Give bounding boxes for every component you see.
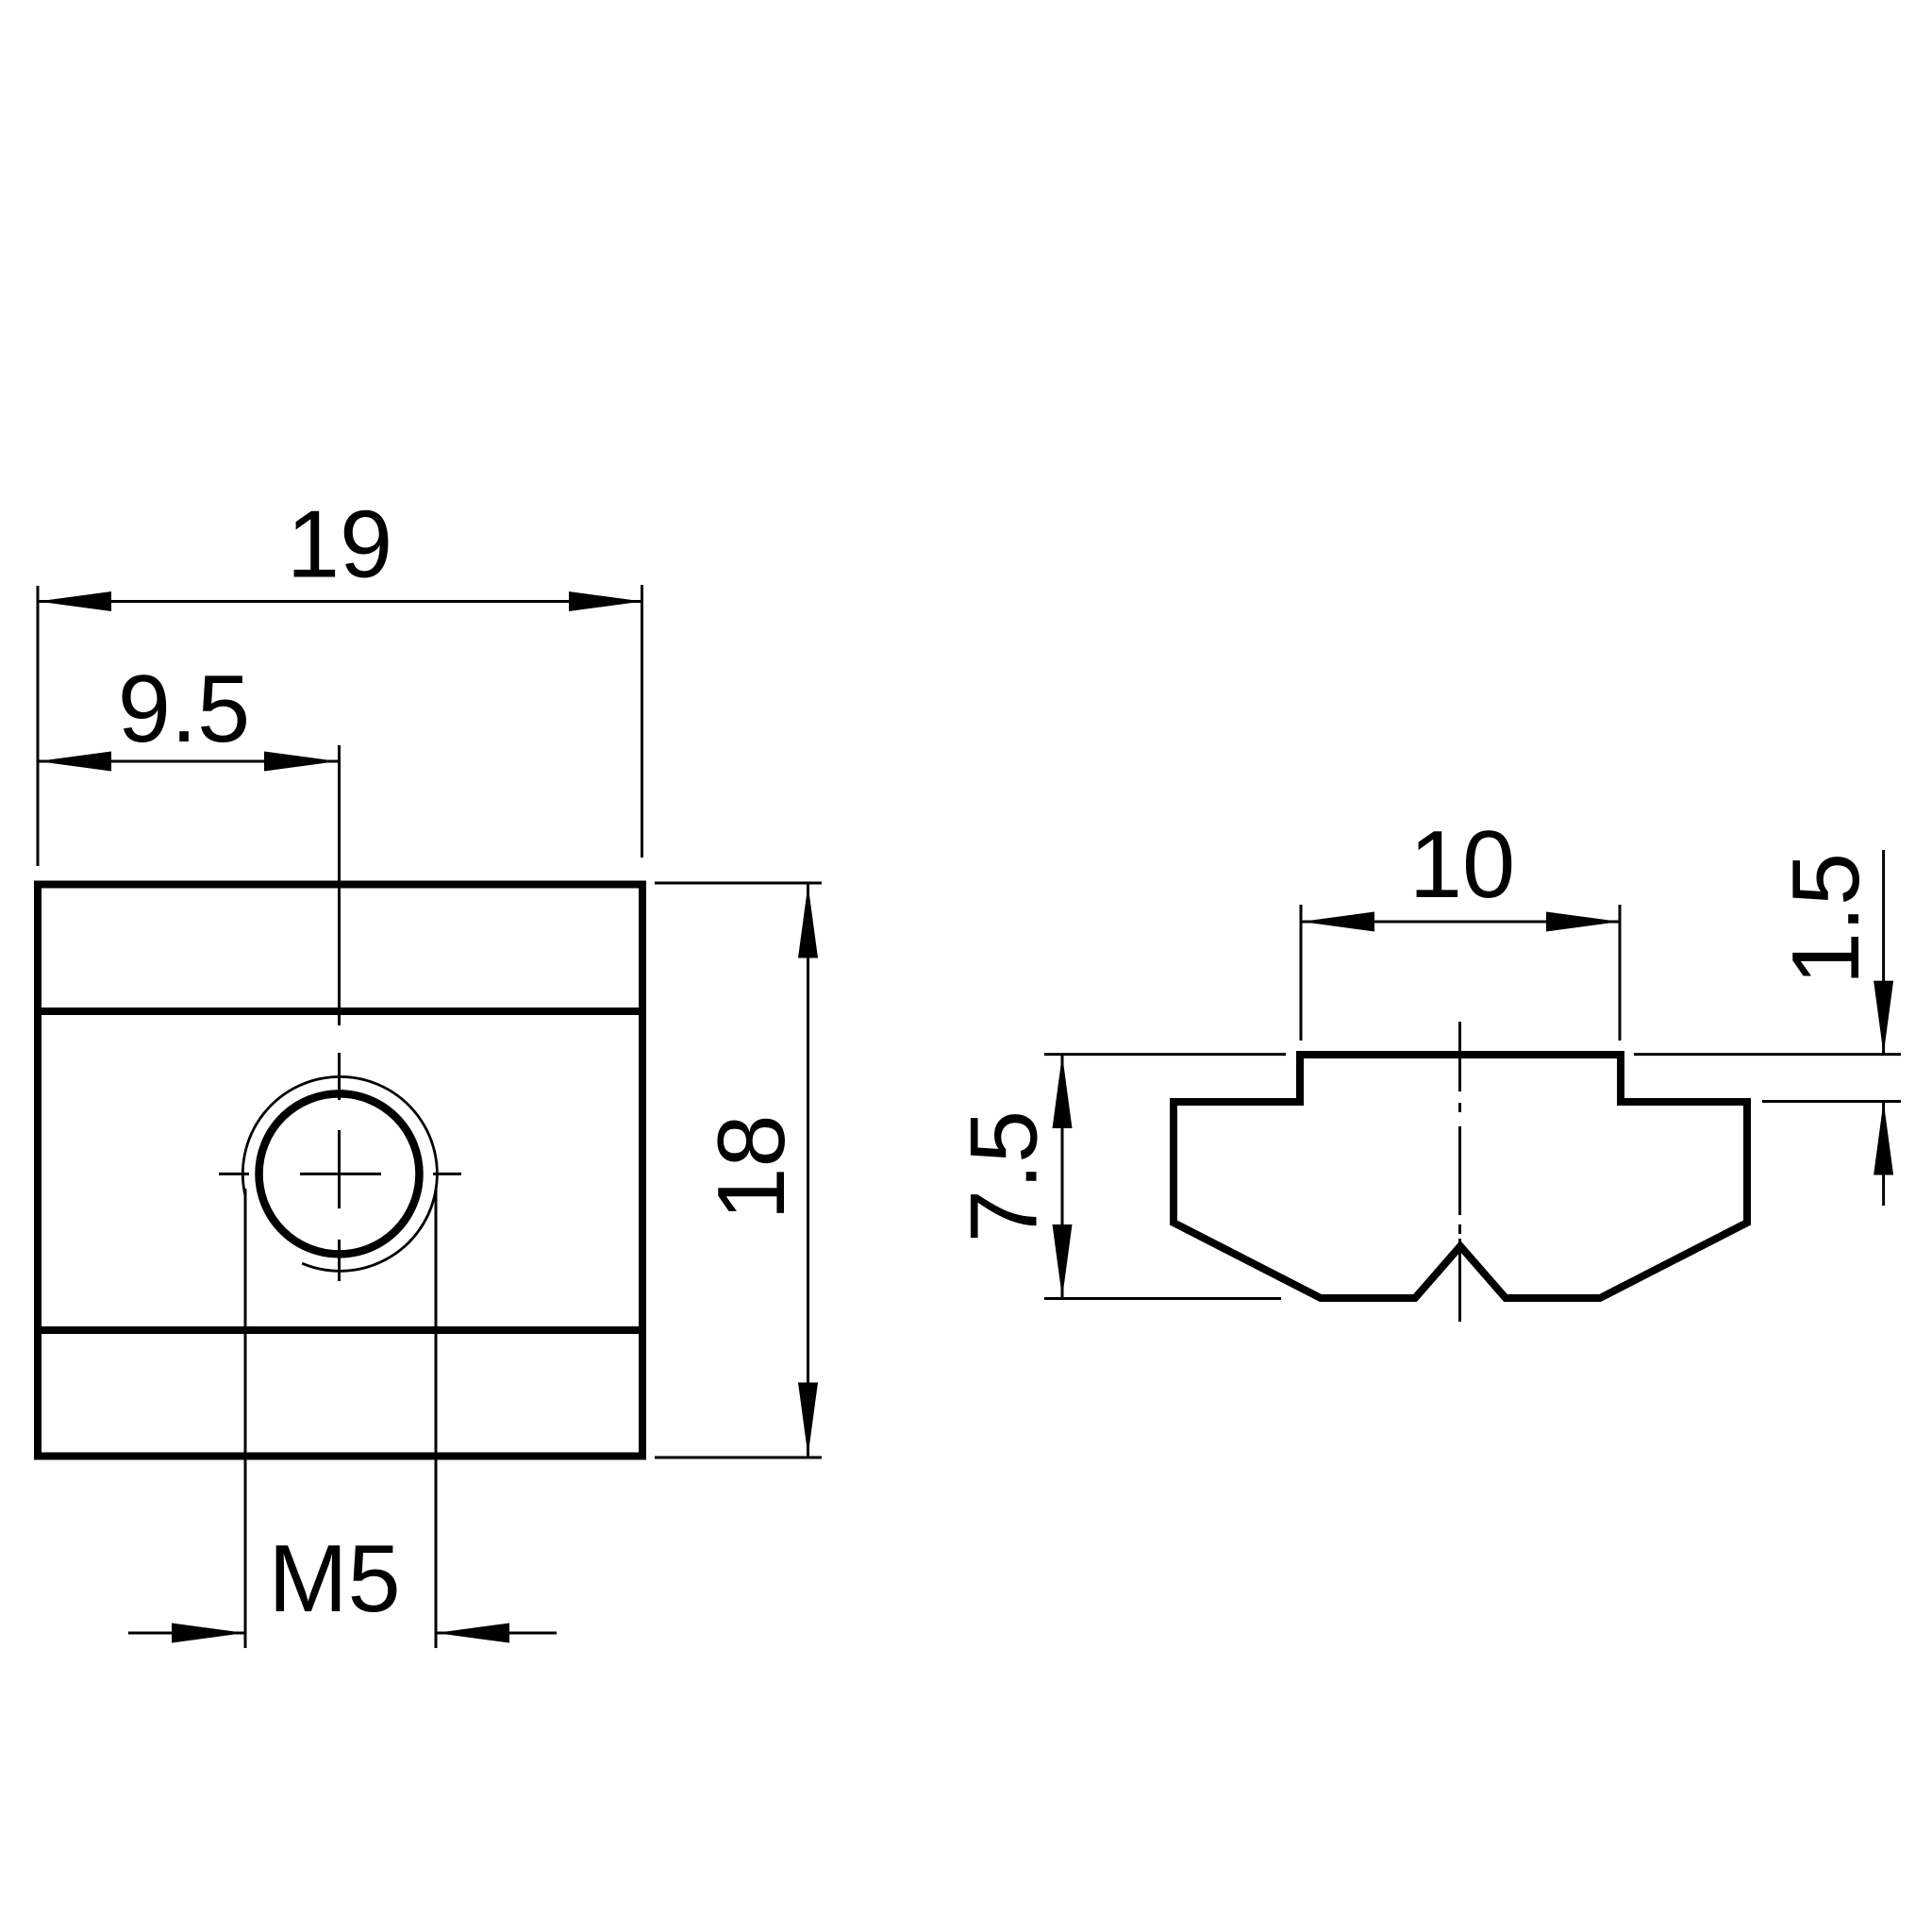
svg-text:18: 18 [699,1114,805,1220]
dimension 10: dimension line with arrows [1301,912,1620,932]
svg-text:10: 10 [1409,812,1515,918]
svg-text:19: 19 [287,492,392,598]
thread major-diameter arc (3/4 thin circle) [242,1076,437,1271]
svg-text:1.5: 1.5 [1774,853,1879,985]
dimension 7.5: dimension line with arrows [1053,1055,1073,1298]
dimension 18: extension lines [655,883,822,1457]
svg-text:M5: M5 [268,1526,400,1632]
dimension 1.5: extension lines [1634,1055,1901,1102]
svg-text:9.5: 9.5 [118,657,250,762]
vertical centerline of hole [338,745,341,1281]
dimension 1.5: dimension line with outside arrows [1874,850,1893,1206]
dimension M5: extension lines [245,1189,436,1648]
dimension 10: extension lines [1301,905,1620,1041]
upper slot edge line [34,1008,646,1015]
part profile outline [1174,1055,1747,1298]
dimension 19: extension lines [38,585,642,866]
dimension 9.5: dimension line with arrows [38,752,338,772]
dimension M5: dimension line with outside arrows [128,1624,557,1643]
part outline rectangle [38,885,642,1457]
tapped hole minor-diameter circle [259,1093,420,1254]
dimension 7.5: extension lines [1044,1055,1286,1299]
dimension 19: dimension line with arrows [38,591,642,611]
dimension 18: dimension line with arrows [798,885,818,1457]
vertical centerline of profile [1458,1022,1461,1322]
horizontal centerline of hole [219,1173,461,1175]
lower slot edge line [34,1326,646,1334]
svg-text:7.5: 7.5 [952,1110,1058,1242]
